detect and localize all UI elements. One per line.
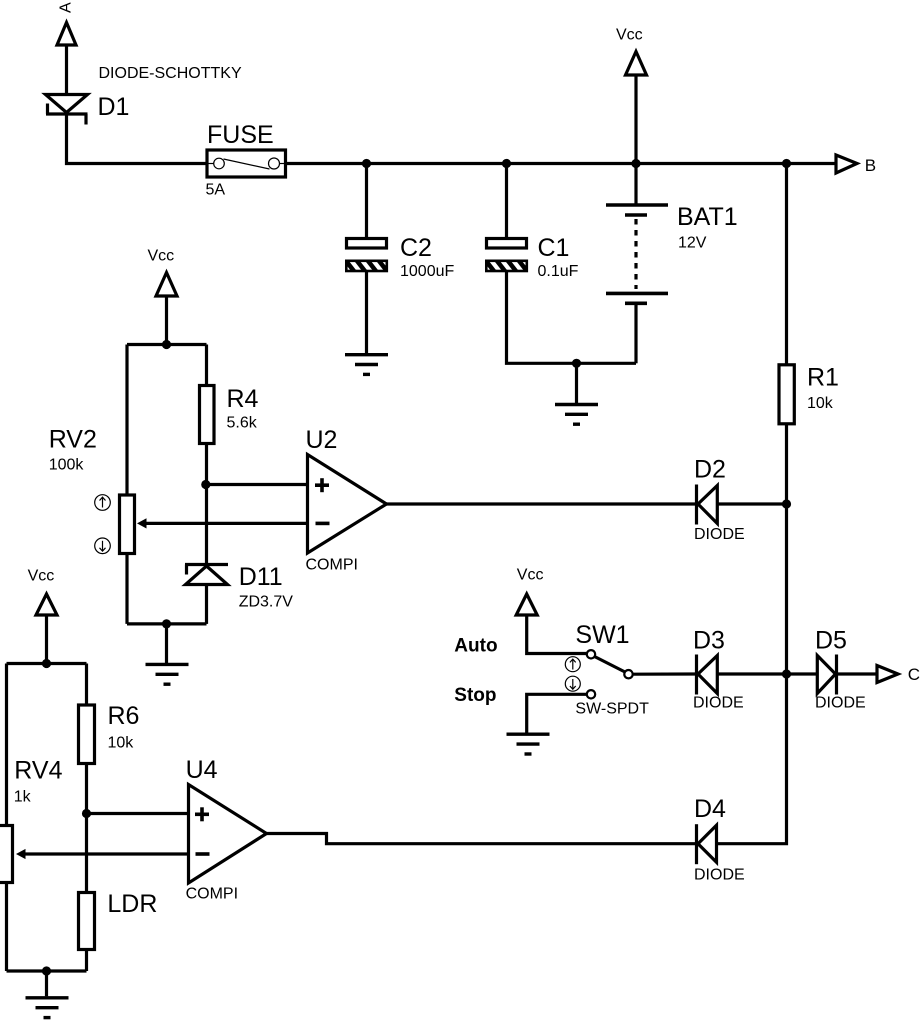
wire left bottom rail bbox=[7, 969, 87, 972]
wire left branch lower bbox=[5, 882, 8, 971]
junction dot C1 bbox=[502, 159, 511, 168]
potentiometer RV2 body bbox=[120, 495, 135, 554]
annotation circled down arrow SW1 bbox=[565, 676, 580, 691]
junction dot RV2 bottom bbox=[162, 619, 171, 628]
junction dot bottom left bbox=[42, 966, 51, 975]
junction dot right rail top bbox=[782, 159, 791, 168]
power Vcc arrow SW1 bbox=[516, 594, 537, 615]
power Vcc arrow RV2 bbox=[156, 273, 177, 297]
resistor LDR body bbox=[79, 893, 95, 950]
wire left branch upper bbox=[5, 664, 8, 826]
battery BAT1 bbox=[606, 205, 668, 303]
potentiometer RV4 wiper arrow bbox=[16, 849, 189, 859]
svg-text:BAT1: BAT1 bbox=[677, 203, 738, 231]
junction dot R4 / U2 plus bbox=[201, 480, 210, 489]
potentiometer RV2 wiper arrow bbox=[137, 518, 308, 528]
wire Vcc to RV2 top rail bbox=[165, 296, 168, 345]
svg-text:ZD3.7V: ZD3.7V bbox=[239, 594, 294, 611]
fuse FUSE body bbox=[207, 150, 286, 177]
junction dot RV4 top bbox=[42, 659, 51, 668]
svg-text:DIODE-SCHOTTKY: DIODE-SCHOTTKY bbox=[99, 65, 242, 82]
svg-text:12V: 12V bbox=[678, 235, 707, 252]
svg-text:C1: C1 bbox=[538, 234, 570, 262]
wire switch pole to D3 bbox=[633, 672, 696, 675]
junction dot ground C1/BAT1 bbox=[572, 359, 581, 368]
wire R1 down to D4 corner bbox=[717, 424, 787, 844]
svg-text:Vcc: Vcc bbox=[28, 568, 55, 585]
diode D5 bbox=[817, 655, 836, 695]
svg-text:DIODE: DIODE bbox=[693, 695, 744, 712]
svg-text:LDR: LDR bbox=[107, 890, 157, 918]
svg-text:10k: 10k bbox=[108, 735, 135, 752]
diode D4 bbox=[697, 824, 717, 864]
capacitor C2 bbox=[343, 239, 390, 276]
junction dot D2 rail bbox=[782, 499, 791, 508]
wire RV2 bottom rail bbox=[127, 622, 207, 625]
diode D11 zener bbox=[185, 565, 228, 585]
svg-text:COMPI: COMPI bbox=[186, 886, 238, 903]
node A terminal arrow bbox=[57, 23, 76, 46]
junction dot R6 / U4 plus bbox=[82, 809, 91, 818]
op-amp U4 bbox=[189, 785, 267, 884]
svg-text:DIODE: DIODE bbox=[694, 526, 745, 543]
wire U4 output to D4 bbox=[265, 834, 695, 844]
diode D2 bbox=[697, 485, 718, 525]
svg-text:100k: 100k bbox=[49, 457, 85, 474]
svg-text:R4: R4 bbox=[227, 385, 259, 413]
svg-text:D3: D3 bbox=[693, 627, 725, 655]
wire top rail to R4 bbox=[205, 345, 208, 386]
svg-text:DIODE: DIODE bbox=[815, 695, 866, 712]
junction dot D3 rail bbox=[782, 669, 791, 678]
wire right rail to R1 bbox=[785, 164, 788, 365]
svg-text:D4: D4 bbox=[694, 795, 726, 823]
capacitor C1 bbox=[483, 239, 530, 276]
svg-text:FUSE: FUSE bbox=[207, 121, 274, 149]
switch SW1 SPDT bbox=[587, 650, 633, 698]
wire U2 plus input bbox=[206, 483, 308, 486]
svg-text:C: C bbox=[908, 665, 920, 684]
node B terminal arrow bbox=[836, 155, 857, 173]
svg-text:5.6k: 5.6k bbox=[227, 415, 258, 432]
wire U4 plus input bbox=[87, 812, 189, 815]
svg-text:U4: U4 bbox=[186, 756, 218, 784]
wire rail to C2 bbox=[365, 164, 368, 239]
svg-text:10k: 10k bbox=[807, 395, 834, 412]
svg-text:Stop: Stop bbox=[454, 685, 496, 706]
svg-text:RV2: RV2 bbox=[49, 426, 97, 454]
wire Vcc to rail and battery top bbox=[634, 75, 637, 204]
wire A to D1 bbox=[65, 45, 68, 94]
svg-text:COMPI: COMPI bbox=[306, 557, 358, 574]
svg-text:U2: U2 bbox=[306, 426, 338, 454]
annotation circled up arrow SW1 bbox=[565, 657, 580, 672]
wire U2 output to D2 bbox=[385, 502, 695, 505]
svg-text:B: B bbox=[865, 156, 876, 175]
node C terminal arrow bbox=[877, 666, 898, 683]
svg-text:Auto: Auto bbox=[454, 635, 497, 656]
wire D1 to fuse corner bbox=[67, 113, 206, 164]
svg-text:Vcc: Vcc bbox=[517, 567, 544, 584]
svg-text:D2: D2 bbox=[694, 456, 726, 484]
wire fuse to B arrow top rail bbox=[286, 162, 836, 165]
wire C2 to ground bbox=[365, 271, 368, 354]
wire left top rail bbox=[7, 662, 87, 665]
wire battery bottom bbox=[634, 305, 637, 363]
svg-text:1000uF: 1000uF bbox=[400, 263, 454, 280]
wire D11 to bottom rail bbox=[205, 585, 208, 624]
wire rail to C1 bbox=[505, 164, 508, 239]
junction dot C2 bbox=[362, 159, 371, 168]
junction dot RV2 top bbox=[162, 340, 171, 349]
resistor R4 bbox=[200, 386, 215, 444]
potentiometer RV4 body bbox=[0, 826, 13, 883]
wire LDR to bottom rail bbox=[85, 950, 88, 972]
ground C2 bbox=[345, 355, 388, 375]
svg-text:1k: 1k bbox=[14, 789, 32, 806]
svg-text:RV4: RV4 bbox=[14, 757, 62, 785]
wire RV2 top rail bbox=[127, 343, 207, 346]
svg-text:0.1uF: 0.1uF bbox=[538, 263, 579, 280]
annotation circled down arrow RV2 bbox=[95, 538, 111, 554]
ground RV4 bbox=[26, 998, 69, 1018]
ground SW1 bbox=[507, 734, 550, 754]
junction dot Vcc/BAT1 bbox=[631, 159, 640, 168]
wire D5 to C arrow bbox=[837, 672, 878, 675]
wire D2 to rail bbox=[717, 502, 786, 505]
wire junction to ground bbox=[575, 363, 578, 403]
wire rail to D5 bbox=[787, 672, 818, 675]
wire Vcc to Auto contact bbox=[527, 615, 587, 654]
wire Stop contact to ground bbox=[527, 694, 587, 733]
svg-text:R6: R6 bbox=[108, 702, 140, 730]
diode D3 bbox=[697, 655, 718, 695]
svg-text:Vcc: Vcc bbox=[616, 27, 643, 44]
wire RV2 bottom to ground bbox=[165, 624, 168, 663]
power Vcc arrow top bbox=[626, 52, 647, 76]
svg-text:D1: D1 bbox=[98, 93, 130, 121]
op-amp U2 bbox=[308, 455, 387, 554]
ground RV2 bbox=[146, 664, 189, 684]
svg-text:SW-SPDT: SW-SPDT bbox=[575, 701, 649, 718]
svg-text:C2: C2 bbox=[400, 234, 432, 262]
resistor R6 bbox=[79, 705, 95, 764]
svg-text:D5: D5 bbox=[815, 627, 847, 655]
resistor R1 bbox=[779, 365, 794, 424]
wire RV2 left upper bbox=[125, 345, 128, 495]
svg-text:R1: R1 bbox=[807, 364, 839, 392]
wire RV2 left lower bbox=[125, 555, 128, 624]
power Vcc arrow RV4 bbox=[36, 594, 57, 615]
svg-text:5A: 5A bbox=[206, 182, 226, 199]
diode D1 schottky symbol bbox=[46, 95, 88, 125]
wire D3 to rail bbox=[717, 672, 786, 675]
svg-text:DIODE: DIODE bbox=[694, 867, 745, 884]
wire top rail to R6 bbox=[85, 664, 88, 706]
svg-text:SW1: SW1 bbox=[575, 621, 629, 649]
wire C1 down and right to battery bottom bbox=[507, 271, 637, 363]
svg-text:Vcc: Vcc bbox=[148, 248, 175, 265]
wire R6 down to LDR bbox=[85, 764, 88, 893]
wire Vcc to left rail bbox=[45, 615, 48, 664]
wire R4 down through junction to D11 bbox=[205, 444, 208, 565]
svg-text:A: A bbox=[58, 2, 75, 13]
svg-text:D11: D11 bbox=[239, 563, 283, 591]
annotation circled up arrow RV2 bbox=[95, 495, 111, 511]
ground C1/BAT1 bbox=[555, 405, 598, 425]
wire bottom junction to ground bbox=[45, 971, 48, 996]
